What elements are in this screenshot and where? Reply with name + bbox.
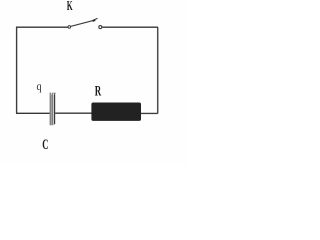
capacitor C right plate	[54, 94, 56, 124]
svg-text:C: C	[42, 137, 48, 153]
wire bottom-left horizontal	[16, 112, 50, 114]
switch K blade	[71, 20, 94, 26]
svg-text:q: q	[37, 79, 42, 93]
switch K left contact	[68, 26, 71, 29]
wire top-right horizontal	[102, 26, 158, 28]
svg-text:R: R	[95, 84, 101, 100]
capacitor C left plate (gray bar)	[50, 94, 54, 125]
wire right vertical	[157, 27, 159, 113]
svg-text:K: K	[67, 0, 73, 13]
wire resistor-to-right stub	[141, 112, 158, 114]
wire top-left horizontal	[16, 26, 68, 28]
resistor R body	[91, 103, 141, 121]
switch K right contact	[99, 26, 102, 29]
wire capacitor-to-resistor	[55, 112, 92, 114]
wire left vertical	[16, 27, 18, 113]
switch K blade tip	[93, 20, 96, 21]
capacitor plate top ticks	[50, 92, 56, 94]
